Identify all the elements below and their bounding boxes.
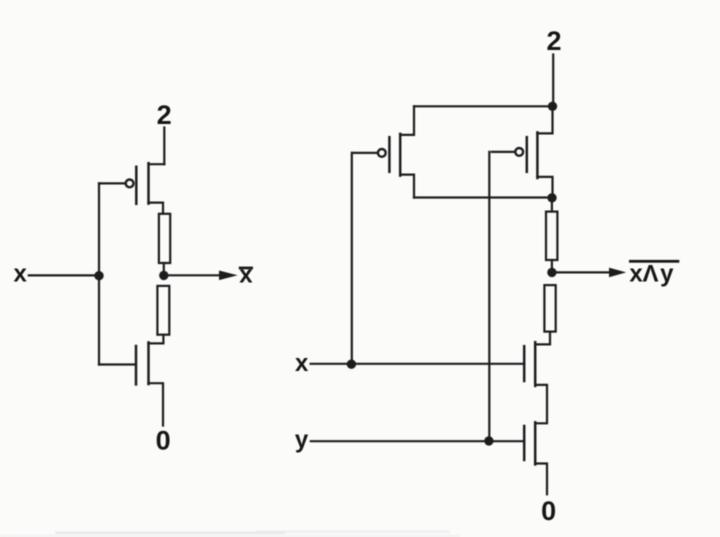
node: x junction (right) [347, 360, 356, 369]
node: left output junction [159, 271, 168, 280]
wire: supply 2 down (right) [552, 55, 554, 107]
svg-text:x: x [239, 262, 253, 289]
arrowhead output (left) [219, 271, 238, 281]
nmos Q2 gate bar [135, 346, 138, 384]
wire: junction to R3 [551, 202, 553, 212]
wire: x input [29, 274, 99, 276]
nmos Q2 channel bar [147, 342, 150, 384]
wire: R2 to NMOS drain (left) [149, 335, 164, 344]
wire: y junction up to U4 gate [488, 152, 490, 441]
pmos U4 drain lead [537, 106, 552, 133]
wire: R3 to output node (right) [551, 260, 553, 268]
arrowhead output (right) [609, 268, 626, 278]
wire: U5 source to U6 drain [535, 385, 547, 423]
pmos U3 source lead [400, 175, 414, 198]
wire: gate bus (left) [98, 183, 100, 364]
pmos U4 channel bar [536, 132, 539, 178]
nmos U6 source lead [535, 464, 547, 495]
node: supply junction (right) [548, 102, 557, 111]
wire: top rail [414, 105, 553, 107]
node: pmos pair output junction [547, 193, 556, 202]
wire: gate lead to U4 bubble [492, 151, 515, 153]
pmos Q1 channel bar [147, 163, 150, 203]
resistor R4 [544, 285, 555, 332]
pmos U3 drain lead [400, 106, 414, 135]
wire: bottom rail of pmos pair [414, 196, 553, 198]
nmos U5 gate bar [523, 346, 526, 381]
pmos Q1 gate bubble [126, 180, 134, 188]
label xbar overbar [239, 267, 253, 270]
pmos Q1 drain lead [149, 163, 165, 165]
nmos U6 channel bar [534, 422, 537, 464]
svg-text:x: x [14, 261, 28, 288]
pmos U4 gate bar [526, 137, 529, 172]
node: nand output junction [547, 268, 556, 277]
node: x input junction (left) [94, 271, 103, 280]
wire: gate lead to U3 bubble [352, 152, 378, 154]
nmos U6 gate bar [523, 426, 526, 460]
svg-text:0: 0 [156, 426, 171, 456]
label x AND y overbar [629, 260, 679, 263]
pmos U4 gate bubble [515, 148, 523, 156]
svg-text:y: y [660, 260, 674, 287]
resistor R1 [159, 214, 170, 263]
wire: x input line (right) [311, 363, 525, 365]
nmos U5 channel bar [534, 342, 537, 386]
wire: gate lead to Q1 bubble [99, 182, 125, 184]
pmos Q1 source lead [149, 203, 164, 214]
nmos Q2 source lead [149, 383, 164, 425]
svg-text:0: 0 [541, 496, 556, 526]
pmos Q1 gate bar [135, 167, 138, 204]
svg-text:Λ: Λ [642, 260, 658, 287]
wire: output arrow shaft (right) [557, 271, 610, 273]
pmos U3 gate bubble [378, 149, 386, 157]
wire: R1 to output node [163, 263, 165, 271]
svg-text:x: x [295, 350, 309, 377]
resistor R3 [546, 212, 557, 260]
wire: x junction up to U3 gate [351, 153, 353, 364]
scan smudge bottom edge [0, 531, 460, 537]
wire: R4 to NMOS U5 drain [536, 332, 551, 345]
node: y junction [484, 436, 493, 445]
resistor R2 [157, 286, 169, 335]
pmos U4 source lead [537, 177, 552, 198]
svg-text:2: 2 [157, 100, 172, 130]
wire: output arrow shaft (left) [168, 274, 220, 276]
pmos U3 channel bar [399, 134, 402, 176]
svg-text:x: x [629, 260, 643, 287]
svg-text:2: 2 [546, 26, 561, 56]
pmos U3 gate bar [388, 137, 391, 172]
wire: gate lead to Q2 [99, 363, 135, 365]
wire: supply 2 down to PMOS drain (left) [163, 128, 165, 165]
wire: y input line [311, 440, 524, 442]
svg-text:y: y [295, 427, 309, 454]
